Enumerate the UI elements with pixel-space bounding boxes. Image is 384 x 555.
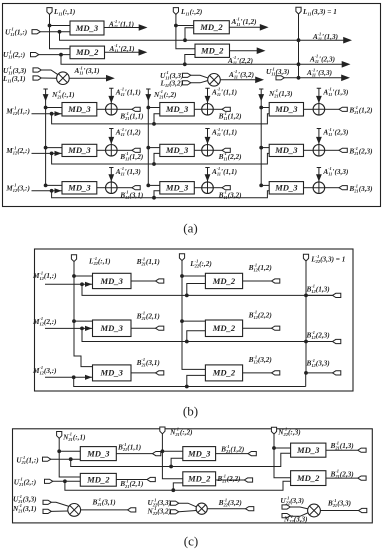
arrow A11-1'(1,1) xyxy=(139,24,148,31)
wire MD_2 output xyxy=(105,51,141,53)
output plug mult2 (c) xyxy=(246,507,254,511)
output plug col2 row2 xyxy=(222,148,230,152)
wire out (c) col2 row1 xyxy=(216,453,248,455)
node U1 riser col2 xyxy=(183,38,187,42)
output plug col1 (b) row3 xyxy=(156,371,164,375)
wire box to adder col3 row3 xyxy=(304,187,314,189)
wire M riser col2 row2 xyxy=(154,153,160,164)
wire adder to plug col3 row1 xyxy=(325,108,339,110)
input plug U22 right (c) xyxy=(282,505,290,509)
multiplier (c) middle xyxy=(196,503,207,514)
input plug U11-1(3,3) col2 xyxy=(183,73,191,77)
wire out col3 (b) row3 xyxy=(306,372,333,374)
svg-text:B12-1(1,2): B12-1(1,2) xyxy=(248,262,272,272)
wire mult3 top (c) xyxy=(290,507,308,509)
wire A' input col1 row2 xyxy=(109,129,113,145)
arrow A11-1'(1,3) xyxy=(343,37,352,44)
block MD_3 (a) col1 row1 xyxy=(70,21,104,35)
wire M bus row3 xyxy=(52,191,270,198)
output plug mult3 (c) xyxy=(359,508,367,512)
input plug U22-1(3,3) (c) xyxy=(171,501,179,505)
output plug col3 (b) row2 xyxy=(333,339,341,343)
wire N into box col2 row3 xyxy=(148,184,160,186)
svg-text:U11-1(3,3): U11-1(3,3) xyxy=(266,66,289,76)
svg-text:B21-1(2,2): B21-1(2,2) xyxy=(216,473,240,483)
wire A' input col3 row2 xyxy=(317,129,321,145)
output plug (c) col1 row1 xyxy=(153,452,161,456)
wire A' input col2 row1 xyxy=(205,88,209,103)
output plug col2 row3 xyxy=(222,186,230,190)
node L22(:,1) row2 xyxy=(72,319,76,323)
node N col3 row2 xyxy=(259,146,263,150)
wire L2 into box (b) row2 xyxy=(182,320,205,322)
output plug mult1 (c) xyxy=(128,508,136,512)
block MD_3 (a)bottom col2 row3 xyxy=(160,182,195,194)
multiplier (a) col1 xyxy=(57,72,70,85)
node U2 riser col2 xyxy=(183,62,187,66)
adder col2 row1 xyxy=(202,104,214,116)
node N col2 row3 xyxy=(146,184,150,188)
wire out col3 (b) row1 xyxy=(306,294,333,296)
wire L11(3,3) vertical xyxy=(298,14,300,78)
svg-text:B12-1(1,3): B12-1(1,3) xyxy=(306,284,330,294)
wire MD_2 col2 output xyxy=(229,26,261,28)
node M (b) row2 xyxy=(80,327,84,331)
svg-text:B21-1(1,2): B21-1(1,2) xyxy=(348,105,372,115)
block MD_2 (a) col1 row2 xyxy=(70,46,105,59)
svg-text:MD_3: MD_3 xyxy=(67,183,91,193)
input pin L22-1(:,1) xyxy=(71,255,76,262)
arrow A11-1'(2,3) xyxy=(342,61,351,68)
output plug col1 (b) row1 xyxy=(156,279,164,283)
wire mult1 out (c) xyxy=(81,509,128,511)
wire M riser col2 (b) row2 xyxy=(187,331,206,342)
svg-text:L11(:,1): L11(:,1) xyxy=(53,8,75,17)
input plug L11(3,1) xyxy=(33,76,41,80)
svg-text:MD_2: MD_2 xyxy=(187,474,211,484)
svg-text:B21-1(1,1): B21-1(1,1) xyxy=(136,256,160,266)
arrow A11-1'(2,2) xyxy=(257,47,266,54)
block MD_3 (c) col2 xyxy=(183,447,216,461)
input pin N21-1(:,2) xyxy=(160,427,165,434)
svg-text:A11-1′(1,3): A11-1′(1,3) xyxy=(115,166,141,176)
node L22(:,1) row1 xyxy=(72,274,76,278)
svg-text:MD_2: MD_2 xyxy=(75,47,99,57)
wire N(:,3) vertical xyxy=(274,434,291,478)
node M row2 xyxy=(50,152,54,156)
svg-text:B11-1(1,2): B11-1(1,2) xyxy=(119,151,143,161)
svg-text:A11-1′(1,3): A11-1′(1,3) xyxy=(312,31,338,41)
svg-text:MD_2: MD_2 xyxy=(212,276,236,286)
arrow A' col2 row3 xyxy=(205,174,211,181)
adder col2 row3 xyxy=(202,182,214,194)
svg-text:MD_2: MD_2 xyxy=(296,473,320,483)
arrow M into box row2 xyxy=(55,151,62,156)
arrow A' col3 row1 xyxy=(316,96,322,103)
wire U11(2,:) into MD_2 xyxy=(39,54,70,56)
arrow A' col2 row1 xyxy=(205,96,211,103)
svg-text:N21-1(:,2): N21-1(:,2) xyxy=(169,427,192,437)
node M row3 xyxy=(50,189,54,193)
wire U(3,3) to vertical xyxy=(284,77,342,79)
svg-text:A11-1′(3,1): A11-1′(3,1) xyxy=(74,65,100,75)
wire box to adder col1 row3 xyxy=(97,187,106,189)
figure (a) border xyxy=(3,4,381,207)
block MD_2 (b) row2 xyxy=(205,320,242,337)
svg-text:B21-1(3,1): B21-1(3,1) xyxy=(136,357,160,367)
svg-text:(a): (a) xyxy=(183,221,197,236)
svg-text:MD_3: MD_3 xyxy=(274,104,298,114)
wire N bus col2 xyxy=(146,89,150,185)
svg-text:A11-1′(1,3): A11-1′(1,3) xyxy=(322,87,348,97)
node N col2 row2 xyxy=(146,146,150,150)
node U11(1,:) branch xyxy=(58,30,62,34)
block MD_3 (a)bottom col1 row2 xyxy=(62,144,97,156)
svg-text:M12-1(3,:): M12-1(3,:) xyxy=(32,365,57,375)
block MD_3 (a)bottom col1 row1 xyxy=(62,103,97,117)
svg-text:B21-1(3,1): B21-1(3,1) xyxy=(92,497,116,507)
node M bus riser col2 row1 xyxy=(152,122,156,126)
wire A' input col1 row3 xyxy=(109,168,113,182)
wire U2 riser into MD_2 col2 row2 xyxy=(185,55,195,65)
arrow N bus col3 xyxy=(258,94,264,101)
svg-text:M12-1(1,:): M12-1(1,:) xyxy=(5,106,30,116)
output plug col3 row3 xyxy=(339,186,347,190)
wire box to adder col3 row2 xyxy=(304,149,314,151)
svg-text:A11-1′(1,1): A11-1′(1,1) xyxy=(108,19,134,29)
wire A' input col2 row2 xyxy=(205,129,209,145)
svg-text:MD_2: MD_2 xyxy=(212,323,236,333)
svg-text:MD_3: MD_3 xyxy=(86,448,110,458)
block MD_3 (a)bottom col3 row1 xyxy=(269,103,303,117)
node U1 riser col2 (c) xyxy=(169,465,173,469)
wire U1 bus xyxy=(60,32,346,40)
wire U1 bus (c) xyxy=(71,453,291,466)
wire out (c) col1 row1 xyxy=(116,453,152,455)
svg-text:MD_3: MD_3 xyxy=(165,183,189,193)
svg-text:L11(:,2): L11(:,2) xyxy=(180,8,202,17)
svg-text:B12-1(2,2): B12-1(2,2) xyxy=(248,310,272,320)
node col3 (b) row1 xyxy=(304,294,308,298)
arrow A' col1 row1 xyxy=(108,96,114,103)
arrow A11-1'(3,3) xyxy=(341,75,350,82)
wire A' input col3 row3 xyxy=(317,168,321,182)
wire L1 into box (b) row2 xyxy=(74,320,93,322)
svg-text:MD_2: MD_2 xyxy=(199,22,223,32)
block MD_3 (a)bottom col3 row3 xyxy=(269,182,303,194)
arrow A11-1'(1,2) xyxy=(260,24,269,31)
output plug (c) col2 row2 xyxy=(244,478,252,482)
svg-text:A11-1′(1,1): A11-1′(1,1) xyxy=(211,87,237,97)
wire N bus col1 xyxy=(43,89,47,185)
wire U(1,:) into MD_3 xyxy=(51,458,81,460)
svg-text:(c): (c) xyxy=(184,533,198,548)
adder col1 row2 xyxy=(106,145,118,157)
arrow M into box row3 xyxy=(55,188,62,193)
output plug col2 (b) row1 xyxy=(272,279,280,283)
wire into multiplier top xyxy=(41,70,58,75)
multiplier (a) col2 xyxy=(208,74,221,87)
node L22(:,2) row2 xyxy=(180,319,184,323)
wire U2 riser col2 (c) xyxy=(173,483,183,490)
input plug U11-1(2,:) xyxy=(31,53,39,57)
wire N into box col2 row2 xyxy=(148,147,160,149)
arrow A11-1'(3,2) xyxy=(255,77,264,84)
svg-text:MD_3: MD_3 xyxy=(100,368,124,378)
wire N(:,1) vertical xyxy=(59,438,80,477)
wire L2 into box (b) row1 xyxy=(182,275,205,277)
wire N into box col2 row1 xyxy=(148,107,160,109)
svg-text:B11-1(1,2): B11-1(1,2) xyxy=(218,111,242,121)
node M riser col2 (b) row3 xyxy=(185,385,189,389)
node M riser col2 (b) row1 xyxy=(185,294,189,298)
adder col1 row1 xyxy=(106,104,118,116)
wire A' input col3 row1 xyxy=(317,88,321,103)
wire box to adder col2 row1 xyxy=(194,108,201,110)
svg-text:L22-1(:,1): L22-1(:,1) xyxy=(88,256,111,266)
wire M bus (b) row3 xyxy=(74,377,306,386)
wire adder to plug col3 row2 xyxy=(325,149,339,151)
multiplier (c) right xyxy=(308,504,321,517)
block MD_2 (c) col1 xyxy=(80,473,116,486)
svg-text:A11-1′(2,3): A11-1′(2,3) xyxy=(309,54,335,64)
arrow M into box row1 xyxy=(55,111,62,116)
node U1 branch (c) xyxy=(69,457,73,461)
wire U11(1,:) into MD_3 xyxy=(40,31,70,33)
wire N into box col1 row2 xyxy=(46,147,62,149)
input plug N22 right (c) xyxy=(282,514,290,518)
node N col3 row1 xyxy=(259,106,263,110)
output plug col3 row1 xyxy=(339,107,347,111)
figure (c) border xyxy=(13,429,373,523)
wire L11(:,2) vertical xyxy=(176,14,195,48)
svg-text:B21-1(1,2): B21-1(1,2) xyxy=(220,444,244,454)
svg-text:MD_2: MD_2 xyxy=(212,368,236,378)
adder col3 row1 xyxy=(313,104,325,116)
svg-text:B22-1(3,2): B22-1(3,2) xyxy=(218,497,242,507)
svg-text:N21-1(:,2): N21-1(:,2) xyxy=(153,89,176,99)
output plug col2 (b) row3 xyxy=(272,371,280,375)
svg-text:MD_3: MD_3 xyxy=(187,448,211,458)
output plug (c) col1 row2 xyxy=(147,477,155,481)
wire box to adder col2 row2 xyxy=(194,149,201,151)
svg-text:B21-1(2,3): B21-1(2,3) xyxy=(348,146,372,156)
multiplier (c) left xyxy=(68,504,81,517)
svg-text:A11-1′(1,2): A11-1′(1,2) xyxy=(231,17,257,27)
output plug col3 row2 xyxy=(339,148,347,152)
wire box to adder col2 row3 xyxy=(194,187,201,189)
wire M riser col2 (b) row3 xyxy=(187,375,206,386)
node A(1,3) xyxy=(297,38,301,42)
arrow M (b) row1 xyxy=(85,282,92,287)
output plug col1 (b) row2 xyxy=(156,326,164,330)
wire L22(3,3) vertical xyxy=(305,261,307,373)
wire MD_3 output xyxy=(104,27,140,29)
node L22(:,2) row1 xyxy=(180,274,184,278)
svg-text:B12-1(3,3): B12-1(3,3) xyxy=(306,358,330,368)
wire M riser col2 row3 xyxy=(154,191,160,198)
svg-text:A11-1′(1,1): A11-1′(1,1) xyxy=(115,87,141,97)
wire N into box col1 row1 xyxy=(46,107,62,109)
svg-text:MD_2: MD_2 xyxy=(86,475,110,485)
node A(2,3) xyxy=(297,62,301,66)
svg-text:U21-1(3,3): U21-1(3,3) xyxy=(13,494,37,504)
adder col3 row2 xyxy=(313,145,325,157)
input plug U21-1(3,3) (c) xyxy=(43,500,51,504)
wire M riser col2 (b) row1 xyxy=(187,284,206,296)
block MD_2 (b) row1 xyxy=(205,273,242,288)
wire box to adder col3 row1 xyxy=(304,108,314,110)
svg-text:MD_3: MD_3 xyxy=(67,145,91,155)
svg-text:MD_3: MD_3 xyxy=(100,276,124,286)
wire into mult2 bottom xyxy=(191,81,208,83)
wire adder to plug col2 row3 xyxy=(213,187,222,189)
block MD_2 (a) col2 row2 xyxy=(195,44,230,57)
svg-text:A11-1′(2,3): A11-1′(2,3) xyxy=(322,127,348,137)
output plug col2 (b) row2 xyxy=(272,326,280,330)
wire adder to plug col1 row2 xyxy=(117,149,132,151)
wire box to adder col1 row2 xyxy=(97,149,106,151)
svg-text:A11-1′(1,1): A11-1′(1,1) xyxy=(211,166,237,176)
svg-text:U21-1(1,:): U21-1(1,:) xyxy=(16,455,38,465)
svg-text:U21-1(2,:): U21-1(2,:) xyxy=(14,477,36,487)
wire adder to plug col1 row3 xyxy=(117,187,132,189)
arrow M (b) row3 xyxy=(85,375,92,380)
svg-text:M12-1(2,:): M12-1(2,:) xyxy=(32,316,57,326)
wire out (c) col3 row2 xyxy=(326,477,358,479)
svg-text:L11(3,1): L11(3,1) xyxy=(2,75,26,84)
svg-text:B21-1(1,1): B21-1(1,1) xyxy=(117,442,141,452)
input pin L22-1(3,3)=1 xyxy=(303,254,308,261)
svg-text:N22-1(3,3): N22-1(3,3) xyxy=(283,514,308,524)
wire adder to plug col2 row1 xyxy=(213,108,222,110)
arrow M (b) row2 xyxy=(85,326,92,331)
arrow A' col2 row2 xyxy=(205,137,211,144)
input pin L11(3,3)=1 xyxy=(296,7,301,14)
output plug col3 (b) row1 xyxy=(333,293,341,297)
block MD_2 (a) col2 row1 xyxy=(194,21,230,34)
wire U2 bus xyxy=(61,55,344,65)
wire out col3 (b) row2 xyxy=(306,341,333,343)
wire out col2 (b) row3 xyxy=(243,372,272,374)
wire M riser col2 row1 xyxy=(154,114,160,124)
wire L22(:,1) vertical xyxy=(74,261,93,366)
wire U1 riser into MD_2 col2 xyxy=(185,28,194,41)
svg-text:B21-1(3,3): B21-1(3,3) xyxy=(327,498,351,508)
output plug (c) col2 row1 xyxy=(248,452,256,456)
svg-text:A11-1′(1,2): A11-1′(1,2) xyxy=(115,127,141,137)
adder col1 row3 xyxy=(106,182,118,194)
node M row1 xyxy=(50,112,54,116)
wire out col1 (b) row1 xyxy=(131,280,156,282)
svg-text:B21-1(3,3): B21-1(3,3) xyxy=(348,183,372,193)
svg-text:B21-1(2,3): B21-1(2,3) xyxy=(330,469,354,479)
wire mult1 top (c) xyxy=(51,502,69,506)
wire mult2 output xyxy=(220,79,256,81)
wire A(1,3) out xyxy=(344,39,347,41)
input plug N21-1(3,1) (c) xyxy=(43,509,51,513)
svg-text:MD_3: MD_3 xyxy=(100,323,124,333)
block MD_3 (c) col3 xyxy=(291,443,326,457)
wire out col2 (b) row1 xyxy=(243,280,272,282)
svg-text:(b): (b) xyxy=(183,404,198,419)
node U2 riser col2 (c) xyxy=(171,488,175,492)
input plug U11-1(3,3) col3 xyxy=(276,76,284,80)
svg-text:L22-1(:,2): L22-1(:,2) xyxy=(189,258,212,268)
input pin N21-1(:,1) xyxy=(57,432,62,439)
svg-text:A11-1′(2,1): A11-1′(2,1) xyxy=(109,43,135,53)
svg-text:N21-1(:,1): N21-1(:,1) xyxy=(51,89,74,99)
svg-text:A11-1′(3,2): A11-1′(3,2) xyxy=(228,69,254,79)
node N(:,3) row1 xyxy=(272,446,276,450)
svg-text:MD_3: MD_3 xyxy=(75,23,99,33)
block MD_3 (b) row2 xyxy=(93,320,132,337)
svg-text:L22-1(3,3) = 1: L22-1(3,3) = 1 xyxy=(310,254,345,264)
wire mult2 out (c) xyxy=(207,508,245,510)
wire N into box col3 row3 xyxy=(261,184,269,186)
block MD_3 (a)bottom col2 row1 xyxy=(160,103,195,117)
wire M3 riser col3 (b) xyxy=(305,373,307,387)
adder col3 row3 xyxy=(313,182,325,194)
wire M bus row2 xyxy=(52,153,270,164)
output plug (c) col3 row1 xyxy=(358,448,366,452)
node col3 (b) row2 xyxy=(304,340,308,344)
svg-text:U22-1(3,3): U22-1(3,3) xyxy=(280,495,304,505)
arrow N bus col2 xyxy=(145,94,151,101)
arrow A11-1'(3,1) xyxy=(106,75,115,82)
svg-text:A11-1′(3,3): A11-1′(3,3) xyxy=(306,67,332,77)
svg-text:N22-1(:,3): N22-1(:,3) xyxy=(277,427,300,437)
input pin L22-1(:,2) xyxy=(179,254,184,261)
wire N(:,2) into MD_3 xyxy=(162,450,182,452)
svg-text:U11-1(2,:): U11-1(2,:) xyxy=(3,49,25,59)
svg-text:M12-1(1,:): M12-1(1,:) xyxy=(32,271,57,281)
svg-text:N21-1(3,1): N21-1(3,1) xyxy=(12,503,37,513)
svg-text:MD_3: MD_3 xyxy=(296,445,320,455)
node N col3 row3 xyxy=(259,184,263,188)
node L11 to MD_3 xyxy=(48,24,52,28)
wire N bus col3 xyxy=(259,89,263,185)
wire N into box col3 row1 xyxy=(261,107,269,109)
wire adder to plug col3 row3 xyxy=(325,187,339,189)
block MD_3 (a)bottom col1 row3 xyxy=(62,182,97,194)
wire M bus row1 xyxy=(52,114,270,124)
wire L22(:,2) vertical xyxy=(182,260,205,369)
wire mult3 out (c) xyxy=(320,510,358,512)
wire out (c) col2 row2 xyxy=(216,479,245,481)
node N col1 row3 xyxy=(44,184,48,188)
wire M into box row2 xyxy=(32,152,63,154)
svg-text:L11(3,3) = 1: L11(3,3) = 1 xyxy=(302,8,337,17)
arrow A' col1 row2 xyxy=(108,137,114,144)
input plug U21-1(2,:) xyxy=(45,479,53,483)
input pin N22-1(:,3) xyxy=(271,427,276,434)
node M (b) row1 xyxy=(80,282,84,286)
wire A(2,3) out xyxy=(343,63,346,65)
wire adder to plug col1 row1 xyxy=(117,108,132,110)
wire L11 column-1 vertical xyxy=(50,14,71,48)
svg-text:U11-1(1,:): U11-1(1,:) xyxy=(5,27,27,37)
wire A' input col2 row3 xyxy=(205,168,209,182)
svg-text:B12-1(3,2): B12-1(3,2) xyxy=(248,354,272,364)
svg-text:B11-1(3,1): B11-1(3,1) xyxy=(119,190,143,200)
wire L11 into MD_3 xyxy=(50,25,71,27)
block MD_3 (a)bottom col2 row2 xyxy=(160,144,195,156)
wire mult2 top (c) xyxy=(179,503,197,507)
wire mult3 bottom (c) xyxy=(290,513,308,517)
block MD_3 (b) row1 xyxy=(93,273,132,288)
wire N into box col1 row3 xyxy=(46,184,62,186)
